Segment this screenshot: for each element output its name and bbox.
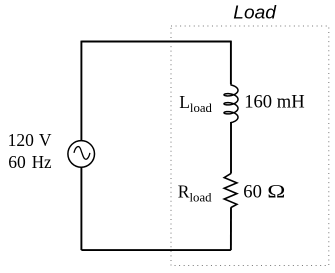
load box dotted boundary (171, 26, 329, 266)
svg-text:120: 120 (8, 130, 34, 150)
svg-text:Rload: Rload (178, 181, 212, 204)
AC source V1 circle (68, 141, 95, 168)
svg-text:Load: Load (233, 1, 276, 22)
inductor L_load coil (224, 83, 238, 124)
wire right upper (230, 41, 232, 84)
wire top (81, 41, 231, 43)
svg-text:60: 60 (243, 182, 262, 203)
wire resistor to bottom corner (230, 207, 232, 250)
wire bottom (81, 249, 231, 251)
svg-text:Lload: Lload (179, 92, 212, 115)
svg-text:160 mH: 160 mH (244, 92, 304, 113)
resistor R_load zigzag (224, 173, 237, 207)
wire left upper (80, 41, 82, 141)
wire left lower (80, 167, 82, 250)
AC source sine wave (74, 147, 90, 160)
svg-text:Hz: Hz (32, 152, 52, 172)
svg-text:60: 60 (8, 152, 26, 172)
wire inductor to resistor (230, 122, 232, 174)
svg-text:Ω: Ω (267, 181, 285, 202)
svg-text:V: V (39, 130, 52, 150)
